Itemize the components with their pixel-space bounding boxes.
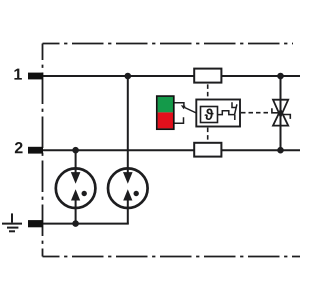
monitor switch release hook: [231, 102, 236, 107]
monitor switch fixed contact: [234, 115, 236, 120]
ground terminal: [28, 220, 43, 227]
terminal 2: [28, 147, 43, 154]
mech linkage dashed: fuse1 to monitor: [207, 84, 209, 98]
surge arrester breakdown bar left hook: [272, 108, 279, 113]
monitor switch lever: [235, 104, 237, 115]
terminal 1 label: [14, 69, 21, 80]
junction line2 / gdt F1: [72, 147, 79, 154]
mech linkage dashed: monitor to fuse2: [207, 128, 209, 142]
junction line1 / gdt F2: [125, 73, 132, 80]
indicator contact bottom: [174, 117, 183, 123]
decoupling element (fuse) on line 2: [194, 143, 221, 157]
gas discharge tube F2: [108, 168, 148, 208]
wire line 2: [43, 149, 300, 151]
junction ground bus / gdt F1: [72, 220, 79, 227]
indicator contact top: [174, 103, 184, 107]
junction line2 / arrester: [277, 147, 284, 154]
thermal disconnect monitor box: [196, 100, 240, 127]
surge arrester lower triangle: [273, 110, 288, 126]
earth symbol: [2, 213, 22, 231]
decoupling element (fuse) on line 1: [194, 69, 221, 83]
enclosure border bottom (dash-dot): [43, 256, 301, 258]
terminal 1: [28, 73, 43, 80]
wire branch arrester (line1 to line2): [280, 76, 282, 150]
junction line1 / arrester: [277, 73, 284, 80]
surge arrester breakdown bar right hook: [282, 115, 290, 119]
enclosure border left (dash-dot): [42, 44, 44, 257]
thermal element label (theta): [205, 109, 214, 120]
thermal element box: [201, 107, 218, 123]
monitor step link: [218, 111, 235, 115]
surge arrester (bidirectional) upper triangle: [273, 100, 288, 117]
wire line 1: [43, 75, 300, 77]
terminal 2 label: [15, 142, 23, 153]
wire branch gdt F2 (line1 to ground, crosses line2): [127, 76, 129, 224]
enclosure border top (dash-dot): [43, 43, 294, 45]
indicator lever with arrowhead: [181, 105, 197, 113]
gas discharge tube F1: [56, 168, 96, 208]
status indicator flag green/red: [157, 96, 174, 129]
mech linkage dashed: monitor to arrester: [241, 112, 269, 114]
wire ground bus: [43, 223, 129, 225]
wire branch gdt F1 (line2 to ground): [75, 150, 77, 223]
